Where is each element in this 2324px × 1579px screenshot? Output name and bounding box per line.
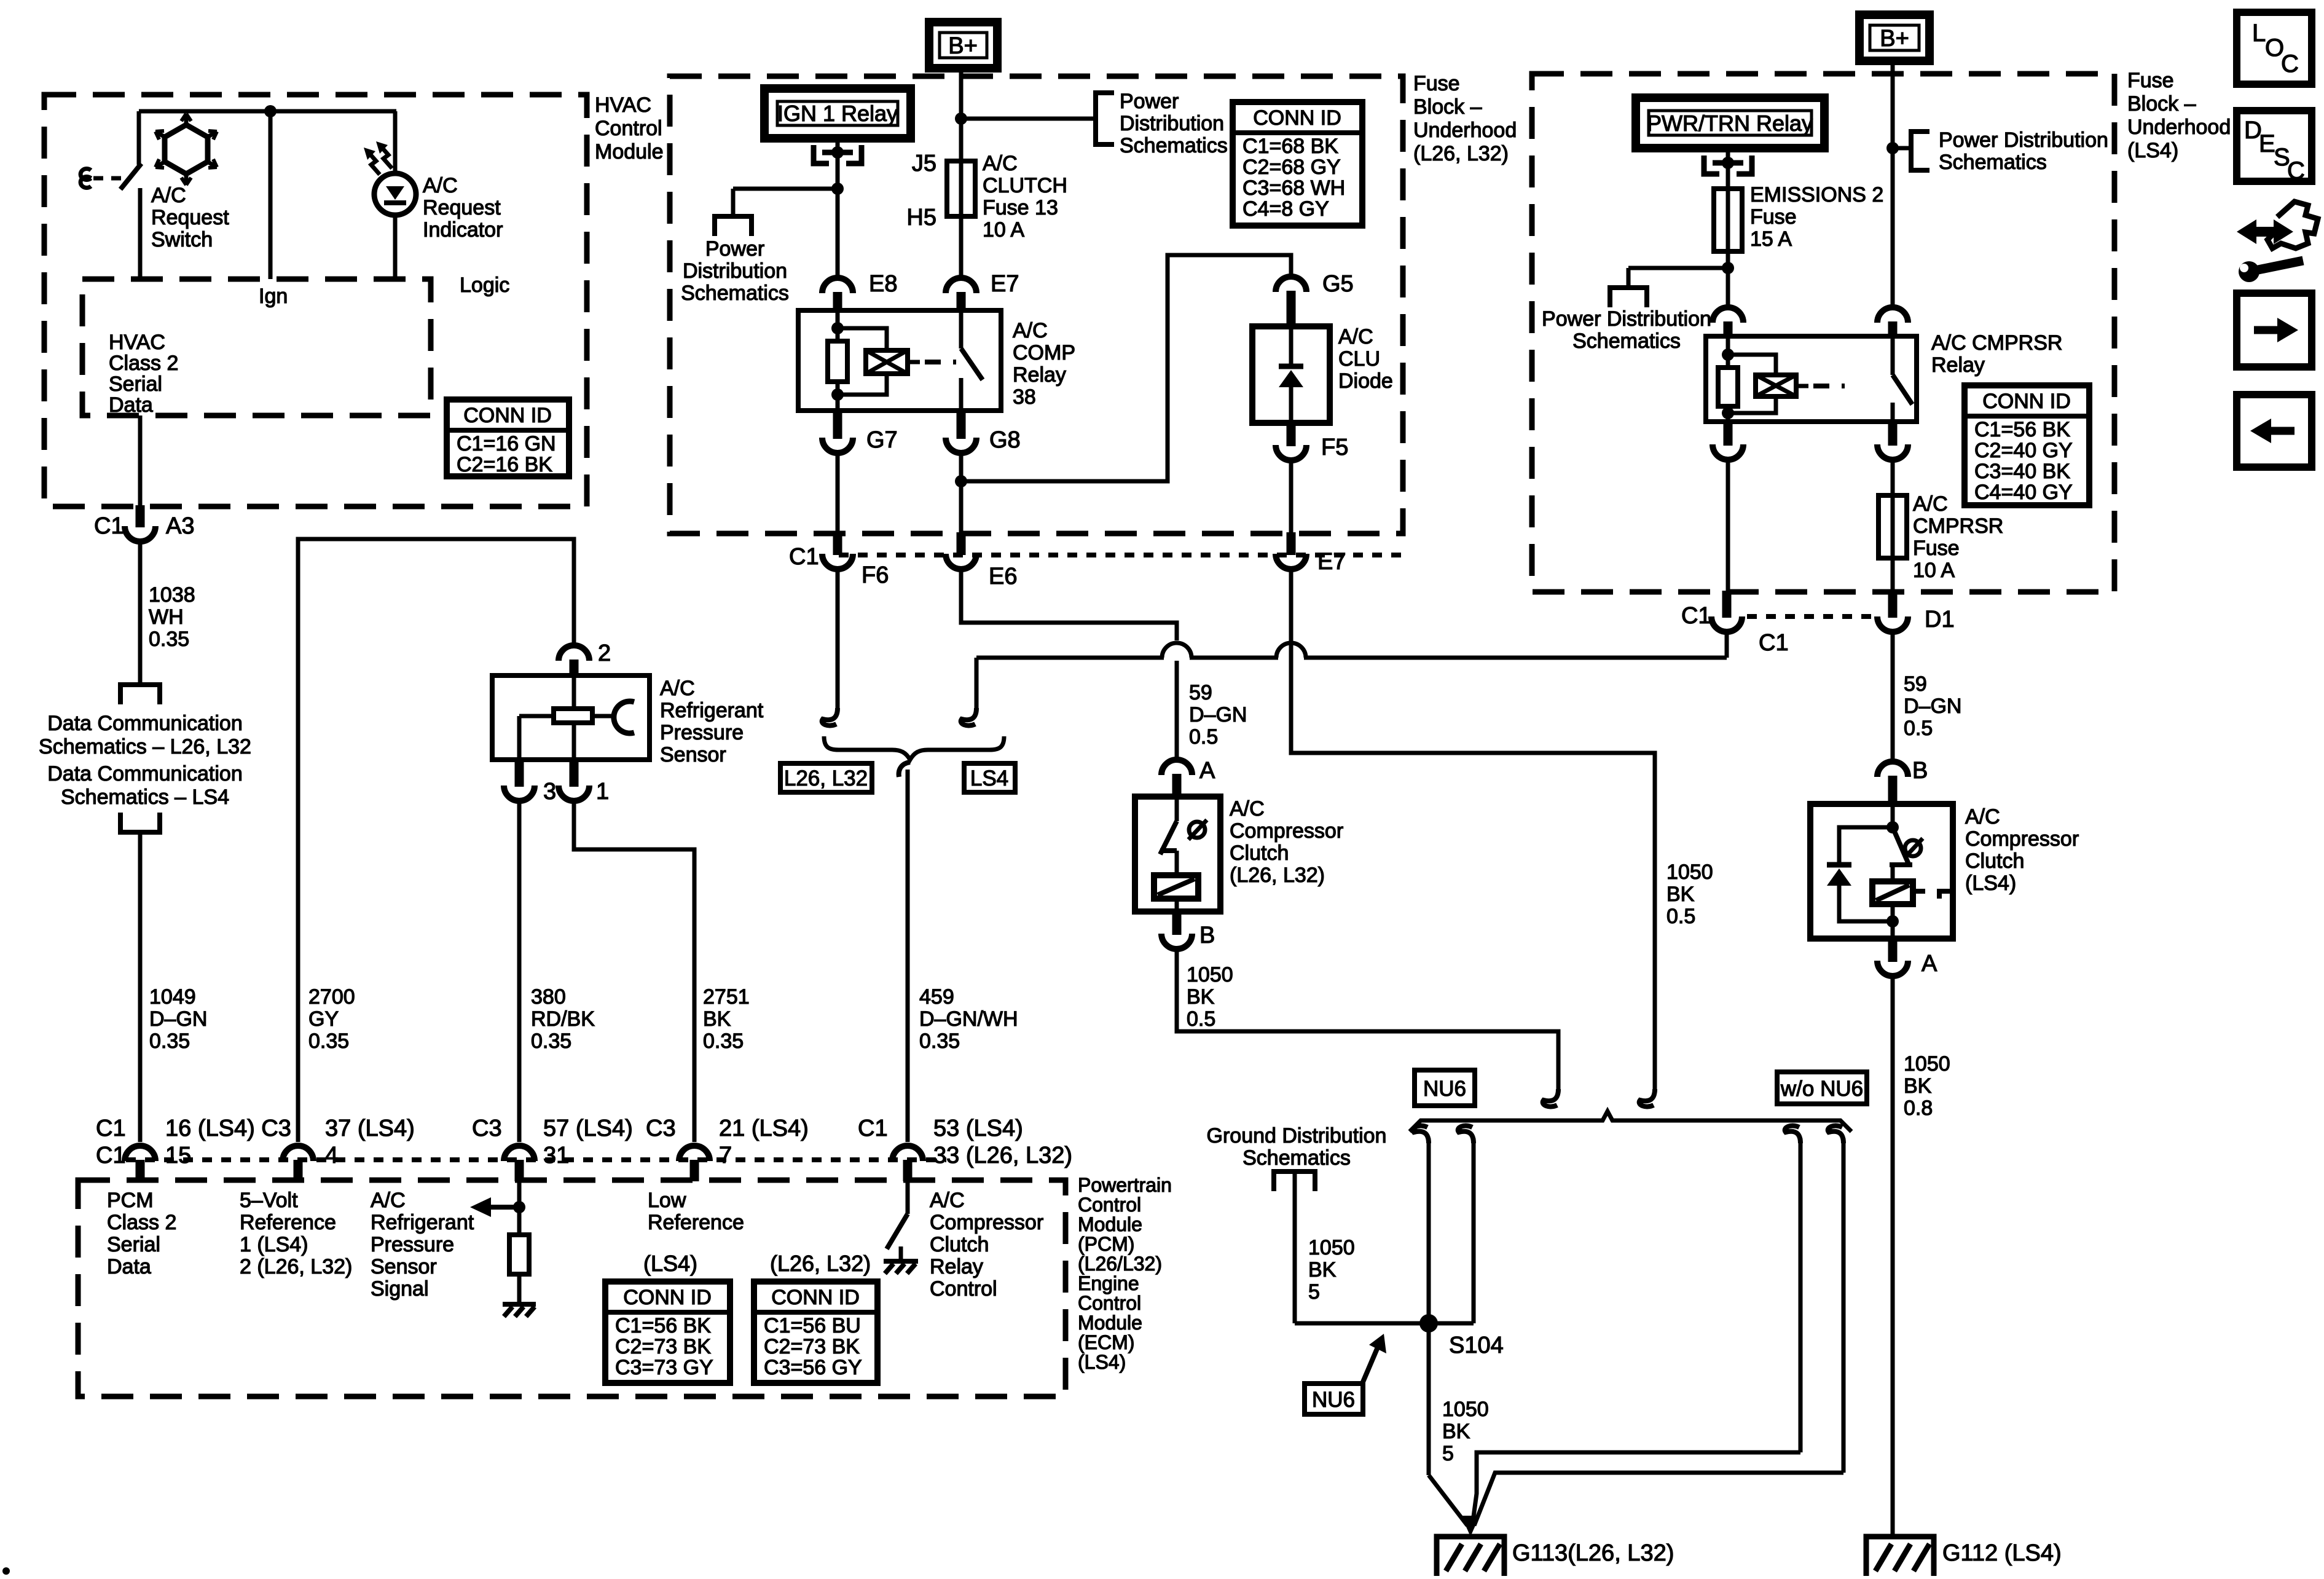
svg-text:Schematics: Schematics (1939, 151, 2047, 174)
svg-text:Class 2: Class 2 (107, 1211, 176, 1234)
svg-text:1038: 1038 (149, 583, 195, 607)
svg-text:A/C: A/C (660, 677, 695, 700)
svg-text:IGN 1 Relay: IGN 1 Relay (777, 101, 898, 126)
svg-text:Refrigerant: Refrigerant (660, 699, 764, 722)
svg-text:A/C: A/C (983, 152, 1018, 175)
svg-text:EMISSIONS 2: EMISSIONS 2 (1750, 183, 1883, 207)
svg-text:CONN ID: CONN ID (623, 1286, 712, 1309)
svg-text:Fuse: Fuse (1750, 205, 1797, 229)
svg-text:C3=56 GY: C3=56 GY (764, 1356, 862, 1379)
svg-text:BK: BK (1666, 883, 1695, 906)
svg-text:Data: Data (107, 1255, 151, 1278)
svg-text:459: 459 (919, 985, 954, 1009)
svg-text:Diode: Diode (1338, 369, 1393, 393)
svg-text:G5: G5 (1322, 271, 1354, 297)
svg-text:(LS4): (LS4) (1078, 1351, 1126, 1373)
svg-text:D–GN: D–GN (149, 1007, 207, 1031)
svg-text:C3: C3 (646, 1116, 676, 1141)
svg-text:Sensor: Sensor (371, 1255, 437, 1278)
svg-text:A: A (1922, 951, 1937, 977)
svg-text:Schematics – LS4: Schematics – LS4 (61, 786, 229, 809)
svg-text:A/C: A/C (1913, 492, 1948, 516)
svg-text:Power Distribution: Power Distribution (1939, 128, 2108, 152)
svg-text:PWR/TRN Relay: PWR/TRN Relay (1647, 111, 1813, 136)
svg-text:(L26, L32): (L26, L32) (1413, 142, 1509, 165)
svg-text:Signal: Signal (371, 1277, 429, 1301)
svg-text:CONN ID: CONN ID (463, 404, 552, 427)
svg-text:31: 31 (543, 1143, 569, 1168)
svg-text:A/C: A/C (371, 1189, 406, 1212)
svg-text:C1=56 BK: C1=56 BK (1974, 418, 2070, 441)
svg-text:C1: C1 (858, 1116, 888, 1141)
svg-text:(LS4): (LS4) (643, 1251, 697, 1276)
svg-text:57 (LS4): 57 (LS4) (543, 1116, 633, 1141)
svg-text:1050: 1050 (1666, 860, 1713, 884)
svg-text:38: 38 (1013, 385, 1036, 409)
svg-text:A/C: A/C (930, 1189, 965, 1212)
svg-text:C3: C3 (472, 1116, 502, 1141)
svg-text:0.5: 0.5 (1187, 1007, 1215, 1031)
svg-text:(LS4): (LS4) (2127, 139, 2178, 162)
svg-text:Control: Control (930, 1277, 997, 1301)
svg-text:Serial: Serial (107, 1233, 160, 1256)
svg-text:1049: 1049 (149, 985, 196, 1009)
svg-text:RD/BK: RD/BK (531, 1007, 595, 1031)
svg-text:C1: C1 (96, 1143, 126, 1168)
svg-text:C4=40 GY: C4=40 GY (1974, 481, 2073, 504)
svg-text:0.35: 0.35 (703, 1030, 744, 1053)
svg-text:BK: BK (703, 1007, 731, 1031)
svg-text:Indicator: Indicator (423, 218, 503, 242)
svg-text:Clutch: Clutch (1230, 841, 1289, 865)
svg-text:53 (LS4): 53 (LS4) (933, 1116, 1023, 1141)
svg-text:0.35: 0.35 (149, 628, 189, 651)
svg-text:2: 2 (598, 640, 611, 666)
svg-text:Ign: Ign (259, 285, 288, 308)
svg-text:Schematics: Schematics (1242, 1146, 1351, 1170)
svg-text:F6: F6 (862, 562, 889, 588)
svg-text:E: E (2259, 130, 2275, 157)
svg-text:33 (L26, L32): 33 (L26, L32) (933, 1143, 1072, 1168)
svg-text:B+: B+ (1880, 26, 1909, 52)
svg-text:C1=56 BU: C1=56 BU (764, 1314, 861, 1337)
svg-text:Request: Request (151, 206, 229, 229)
svg-text:B+: B+ (948, 33, 978, 59)
svg-text:2700: 2700 (308, 985, 355, 1009)
svg-text:4: 4 (325, 1143, 338, 1168)
svg-text:B: B (1912, 758, 1928, 784)
svg-text:3: 3 (543, 779, 556, 805)
svg-text:1050: 1050 (1308, 1236, 1355, 1259)
svg-text:C1: C1 (94, 513, 124, 539)
svg-text:Module: Module (1078, 1213, 1142, 1235)
svg-text:CONN ID: CONN ID (1982, 390, 2071, 413)
svg-text:Schematics: Schematics (681, 282, 789, 305)
svg-text:C1=56 BK: C1=56 BK (615, 1314, 711, 1337)
svg-text:A/C: A/C (151, 184, 186, 207)
svg-text:WH: WH (149, 605, 184, 629)
svg-text:0.35: 0.35 (308, 1030, 349, 1053)
svg-text:(L26/L32): (L26/L32) (1078, 1253, 1162, 1275)
svg-text:1050: 1050 (1187, 963, 1233, 986)
svg-text:A3: A3 (166, 513, 194, 539)
svg-text:G113(L26, L32): G113(L26, L32) (1512, 1540, 1674, 1566)
svg-text:Power Distribution: Power Distribution (1542, 307, 1711, 331)
svg-text:C3=68 WH: C3=68 WH (1242, 176, 1345, 200)
svg-text:Relay: Relay (1931, 353, 1985, 377)
svg-text:Block –: Block – (1413, 95, 1482, 119)
svg-text:C1=16 GN: C1=16 GN (457, 432, 556, 455)
svg-text:0.5: 0.5 (1904, 717, 1933, 740)
svg-text:15: 15 (165, 1143, 191, 1168)
svg-text:10 A: 10 A (983, 218, 1024, 242)
svg-text:Refrigerant: Refrigerant (371, 1211, 474, 1234)
svg-text:E6: E6 (989, 564, 1017, 589)
svg-text:Class 2: Class 2 (109, 352, 178, 375)
svg-text:C: C (2287, 157, 2305, 184)
svg-text:Switch: Switch (151, 228, 213, 251)
svg-text:Data Communication: Data Communication (47, 712, 242, 735)
svg-text:NU6: NU6 (1423, 1077, 1466, 1101)
svg-text:21 (LS4): 21 (LS4) (719, 1116, 809, 1141)
svg-text:Reference: Reference (240, 1211, 336, 1234)
svg-text:C3=73 GY: C3=73 GY (615, 1356, 713, 1379)
svg-text:Clutch: Clutch (930, 1233, 989, 1256)
svg-text:HVAC: HVAC (109, 331, 165, 354)
svg-text:5–Volt: 5–Volt (240, 1189, 298, 1212)
svg-text:Serial: Serial (109, 372, 162, 396)
svg-text:L: L (2252, 20, 2266, 47)
svg-text:Distribution: Distribution (683, 259, 787, 283)
svg-text:10 A: 10 A (1913, 559, 1955, 582)
svg-text:BK: BK (1442, 1420, 1470, 1443)
svg-text:Powertrain: Powertrain (1078, 1174, 1172, 1196)
svg-text:CONN ID: CONN ID (1253, 106, 1341, 130)
svg-text:59: 59 (1189, 681, 1212, 704)
svg-text:Data: Data (109, 393, 153, 417)
svg-text:0.35: 0.35 (149, 1030, 190, 1053)
svg-text:C1: C1 (1681, 603, 1711, 629)
svg-text:Control: Control (1078, 1292, 1141, 1314)
svg-text:BK: BK (1308, 1258, 1337, 1282)
svg-text:Sensor: Sensor (660, 743, 726, 766)
svg-text:Control: Control (1078, 1194, 1141, 1216)
svg-text:D–GN/WH: D–GN/WH (919, 1007, 1018, 1031)
svg-text:Distribution: Distribution (1120, 112, 1224, 135)
svg-text:Pressure: Pressure (660, 721, 744, 744)
svg-text:Underhood: Underhood (1413, 119, 1517, 142)
svg-text:0.35: 0.35 (919, 1030, 960, 1053)
svg-text:(PCM): (PCM) (1078, 1233, 1134, 1255)
svg-text:NU6: NU6 (1312, 1388, 1355, 1412)
svg-text:Low: Low (648, 1189, 686, 1212)
svg-text:C2=16 BK: C2=16 BK (457, 453, 552, 476)
svg-text:2 (L26, L32): 2 (L26, L32) (240, 1255, 352, 1278)
svg-text:Logic: Logic (460, 274, 509, 297)
svg-text:Compressor: Compressor (930, 1211, 1043, 1234)
svg-text:Module: Module (595, 140, 664, 163)
svg-text:0.8: 0.8 (1904, 1097, 1933, 1120)
svg-text:BK: BK (1904, 1074, 1932, 1098)
svg-text:PCM: PCM (107, 1189, 154, 1212)
svg-text:A/C: A/C (1338, 325, 1373, 348)
svg-text:C2=40 GY: C2=40 GY (1974, 439, 2073, 462)
svg-text:E7: E7 (1317, 549, 1346, 575)
svg-text:C: C (2281, 50, 2299, 77)
svg-text:59: 59 (1904, 672, 1927, 696)
svg-text:S104: S104 (1449, 1333, 1504, 1358)
svg-text:Underhood: Underhood (2127, 116, 2231, 139)
svg-text:Fuse: Fuse (2127, 69, 2174, 92)
svg-text:A/C: A/C (1230, 797, 1265, 821)
svg-text:C3=40 BK: C3=40 BK (1974, 460, 2070, 483)
svg-text:0.5: 0.5 (1189, 725, 1218, 749)
svg-text:16 (LS4) C3: 16 (LS4) C3 (165, 1116, 291, 1141)
svg-text:Schematics: Schematics (1120, 134, 1228, 157)
svg-text:C2=68 GY: C2=68 GY (1242, 156, 1341, 179)
svg-text:(LS4): (LS4) (1965, 872, 2016, 895)
svg-text:D–GN: D–GN (1189, 703, 1247, 726)
svg-text:w/o NU6: w/o NU6 (1780, 1077, 1863, 1101)
svg-text:A/C: A/C (423, 174, 458, 197)
svg-text:CLUTCH: CLUTCH (983, 174, 1067, 197)
svg-text:COMP: COMP (1013, 341, 1075, 364)
svg-text:380: 380 (531, 985, 566, 1009)
svg-text:B: B (1199, 923, 1215, 948)
svg-text:G7: G7 (866, 427, 898, 453)
svg-text:(ECM): (ECM) (1078, 1331, 1134, 1353)
svg-text:1 (LS4): 1 (LS4) (240, 1233, 308, 1256)
svg-text:37 (LS4): 37 (LS4) (325, 1116, 415, 1141)
svg-text:C1: C1 (789, 544, 819, 570)
svg-text:Block –: Block – (2127, 92, 2196, 116)
svg-text:A: A (1199, 758, 1215, 784)
svg-text:Relay: Relay (1013, 363, 1066, 387)
svg-text:A/C: A/C (1013, 319, 1048, 342)
svg-text:Control: Control (595, 117, 662, 140)
svg-text:Schematics: Schematics (1572, 329, 1681, 353)
svg-text:1050: 1050 (1904, 1052, 1950, 1076)
svg-text:Relay: Relay (930, 1255, 983, 1278)
svg-text:Clutch: Clutch (1965, 849, 2024, 873)
svg-text:CMPRSR: CMPRSR (1913, 514, 2003, 538)
svg-text:5: 5 (1308, 1280, 1320, 1304)
svg-text:C2=73 BK: C2=73 BK (764, 1335, 860, 1358)
svg-text:Request: Request (423, 196, 501, 219)
svg-text:E7: E7 (991, 271, 1019, 297)
svg-text:C2=73 BK: C2=73 BK (615, 1335, 711, 1358)
svg-text:BK: BK (1187, 985, 1215, 1009)
svg-text:(L26, L32): (L26, L32) (1230, 864, 1325, 887)
svg-text:2751: 2751 (703, 985, 750, 1009)
svg-text:L26, L32: L26, L32 (784, 766, 868, 790)
svg-text:Schematics – L26, L32: Schematics – L26, L32 (39, 735, 251, 758)
svg-text:D–GN: D–GN (1904, 695, 1961, 718)
svg-text:D1: D1 (1925, 607, 1955, 632)
svg-text:G8: G8 (989, 427, 1021, 453)
svg-text:Fuse: Fuse (1413, 72, 1460, 95)
svg-text:15 A: 15 A (1750, 227, 1792, 251)
svg-text:C1=68 BK: C1=68 BK (1242, 135, 1338, 158)
svg-text:C4=8 GY: C4=8 GY (1242, 197, 1329, 221)
svg-text:Pressure: Pressure (371, 1233, 454, 1256)
svg-text:Engine: Engine (1078, 1272, 1139, 1294)
svg-text:Ground Distribution: Ground Distribution (1207, 1124, 1387, 1148)
svg-text:CONN ID: CONN ID (771, 1286, 860, 1309)
svg-text:Compressor: Compressor (1230, 819, 1343, 843)
svg-text:HVAC: HVAC (595, 93, 651, 117)
svg-text:A/C CMPRSR: A/C CMPRSR (1931, 331, 2062, 355)
svg-text:Power: Power (1120, 90, 1179, 113)
svg-text:(L26, L32): (L26, L32) (770, 1251, 871, 1276)
svg-text:Compressor: Compressor (1965, 827, 2079, 851)
svg-text:C1: C1 (1759, 630, 1789, 656)
svg-text:5: 5 (1442, 1442, 1454, 1465)
svg-text:CLU: CLU (1338, 347, 1380, 371)
svg-text:F5: F5 (1321, 435, 1348, 460)
svg-text:7: 7 (719, 1143, 732, 1168)
svg-text:1: 1 (596, 779, 609, 805)
svg-text:LS4: LS4 (970, 766, 1008, 790)
svg-text:Fuse 13: Fuse 13 (983, 196, 1058, 219)
svg-text:Fuse: Fuse (1913, 537, 1960, 560)
svg-text:0.35: 0.35 (531, 1030, 571, 1053)
svg-text:Reference: Reference (648, 1211, 744, 1234)
svg-text:E8: E8 (869, 271, 897, 297)
svg-text:0.5: 0.5 (1666, 905, 1695, 928)
svg-text:H5: H5 (906, 205, 936, 230)
svg-text:A/C: A/C (1965, 805, 2000, 829)
svg-text:Module: Module (1078, 1312, 1142, 1334)
svg-text:Data Communication: Data Communication (47, 762, 242, 786)
svg-text:1050: 1050 (1442, 1398, 1489, 1421)
svg-text:GY: GY (308, 1007, 339, 1031)
svg-text:G112 (LS4): G112 (LS4) (1942, 1540, 2062, 1566)
svg-text:C1: C1 (96, 1116, 126, 1141)
svg-text:J5: J5 (912, 151, 936, 176)
svg-text:Power: Power (705, 237, 764, 261)
